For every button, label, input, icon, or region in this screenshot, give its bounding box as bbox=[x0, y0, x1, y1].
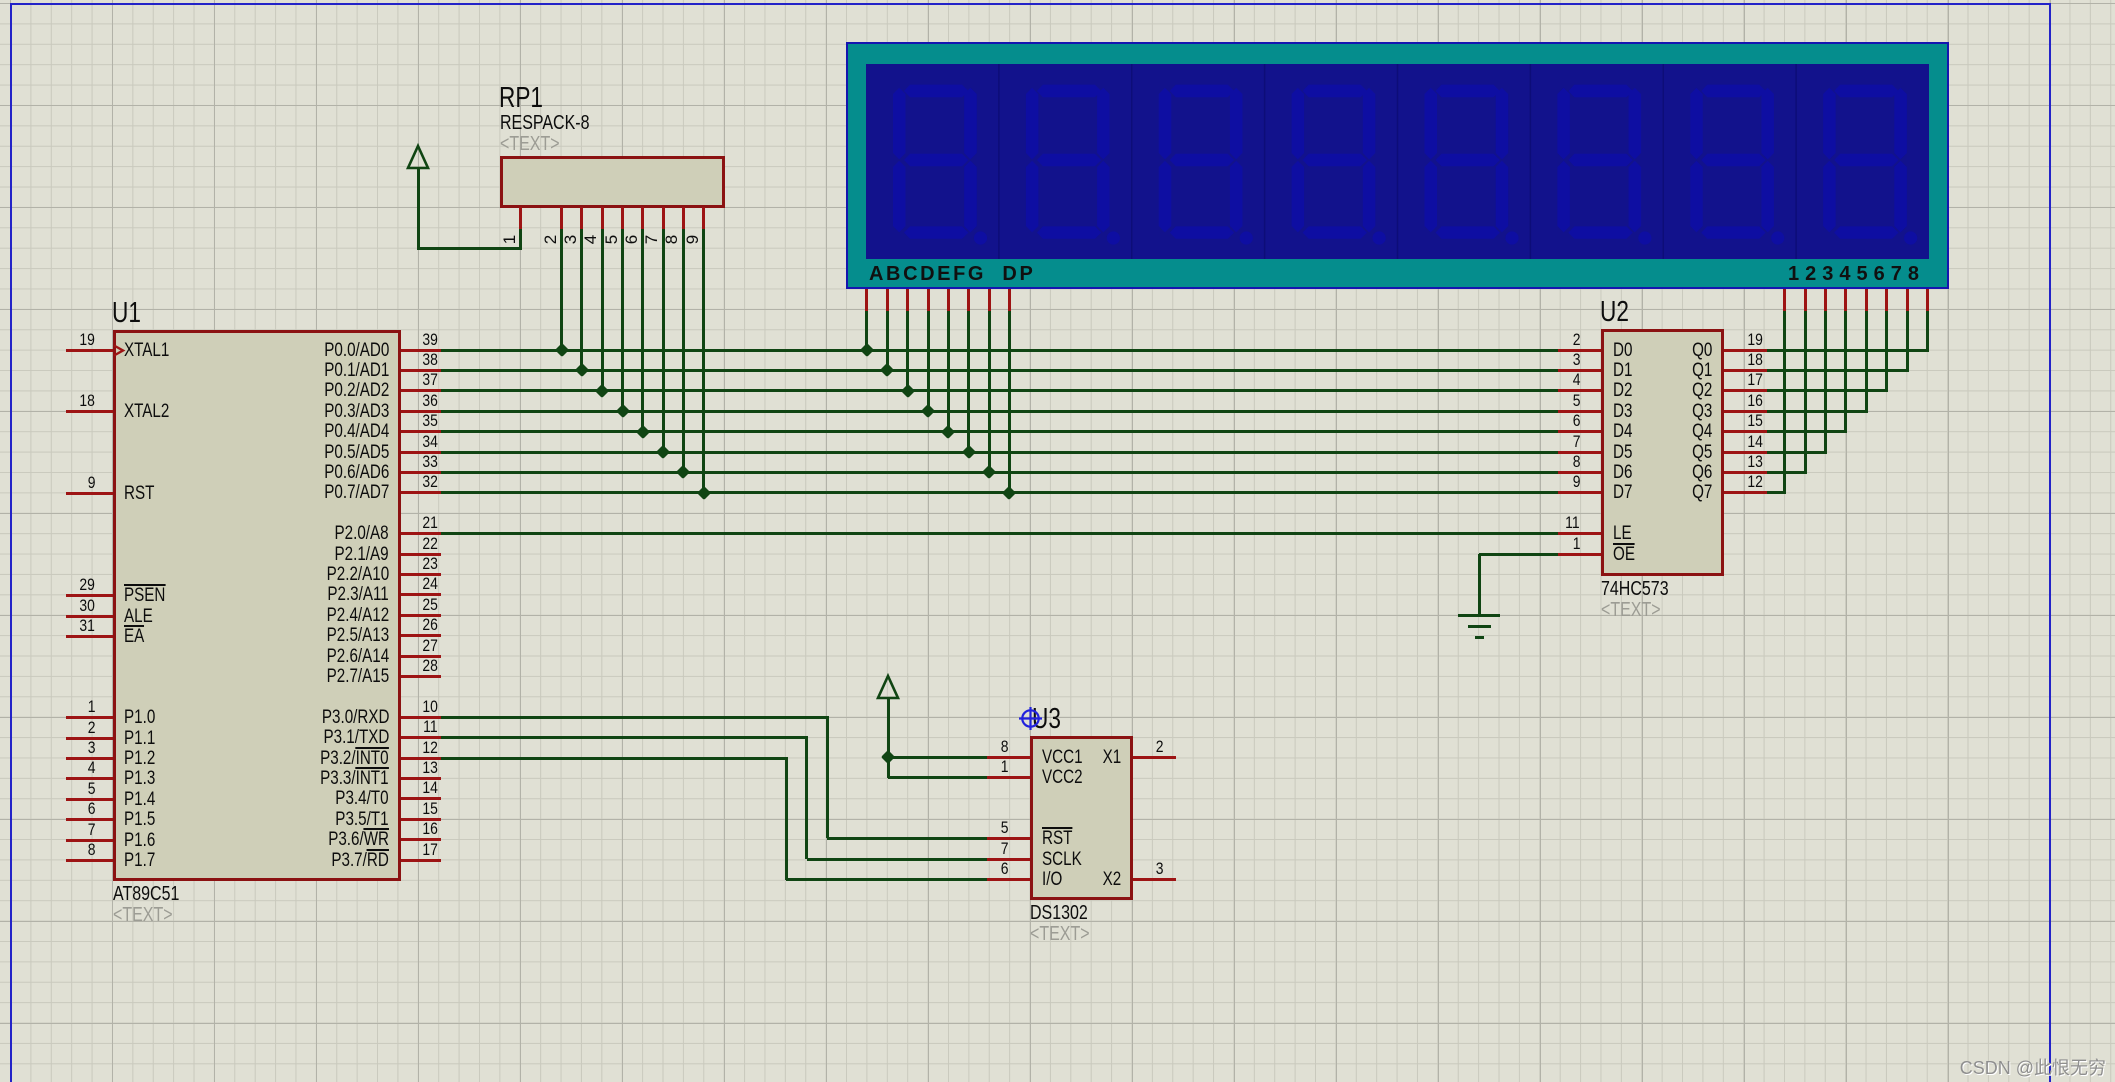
U2 pin number 4 bbox=[1534, 371, 1580, 388]
wire display digit 6 vertical bbox=[1885, 311, 1888, 393]
U2 pin number 6 bbox=[1534, 412, 1580, 429]
junction AD1 / display segment 2 bbox=[880, 363, 894, 377]
U1 pin number 11 bbox=[392, 718, 438, 735]
ground symbol bbox=[1458, 614, 1500, 617]
junction AD2 / RP1 pin 4 bbox=[595, 384, 609, 398]
U1 pin number 33 bbox=[392, 453, 438, 470]
U3 pin name VCC2 bbox=[1042, 768, 1093, 787]
U1 pin number 17 bbox=[392, 841, 438, 858]
U1 pin number 3 bbox=[49, 739, 95, 756]
U2 pin number 9 bbox=[1534, 473, 1580, 490]
U2 pin name Q3 bbox=[1652, 402, 1712, 421]
U2 pin number 16 bbox=[1717, 392, 1763, 409]
junction AD0 / RP1 pin 2 bbox=[555, 343, 569, 357]
label TEXT U2 bbox=[1601, 600, 1675, 620]
RP1 pin 3 stub bbox=[580, 207, 583, 229]
U1 pin number 8 bbox=[49, 841, 95, 858]
U2 pin name D7 bbox=[1613, 483, 1637, 502]
wire power stem bbox=[417, 169, 420, 250]
U2 pin 13 (Q6) stub bbox=[1724, 471, 1767, 474]
U1 pin 33 (P0.6/AD6) stub bbox=[401, 471, 441, 474]
display digit labels 12345678 bbox=[1788, 263, 1925, 286]
U1 pin 9 (RST) stub bbox=[66, 492, 113, 495]
U3 pin 1 (VCC2) stub bbox=[987, 776, 1030, 779]
U1 pin 27 (P2.6/A14) stub bbox=[401, 655, 441, 658]
U2 pin 18 (Q1) stub bbox=[1724, 369, 1767, 372]
U1 pin 37 (P0.2/AD2) stub bbox=[401, 389, 441, 392]
U1 pin number 18 bbox=[49, 392, 95, 409]
junction AD5 / display segment 6 bbox=[962, 445, 976, 459]
U1 pin name P1.4 bbox=[124, 790, 163, 809]
label U2 bbox=[1600, 298, 1637, 327]
U3 pin number 5 bbox=[962, 819, 1008, 836]
wire RP1 pin5 to AD3 bbox=[621, 229, 624, 410]
U3 pin 2 (X1) stub bbox=[1133, 756, 1176, 759]
wire display digit 2 vertical bbox=[1804, 311, 1807, 474]
U1 pin number 19 bbox=[49, 331, 95, 348]
U1 pin 18 (XTAL2) stub bbox=[66, 410, 113, 413]
RP1 pin 2 stub bbox=[560, 207, 563, 229]
label TEXT U1 bbox=[113, 905, 187, 925]
label U1 bbox=[112, 299, 149, 328]
power symbol +V (near U3) bbox=[874, 673, 902, 701]
U1 pin number 36 bbox=[392, 392, 438, 409]
wire net AD7 (U1 P0.7 to U2 D7) bbox=[441, 491, 1558, 494]
display pin 3 stub bbox=[1824, 289, 1827, 311]
U1 pin number 35 bbox=[392, 412, 438, 429]
RP1 pin 8 stub bbox=[682, 207, 685, 229]
7-segment display module (8 digits) bbox=[846, 42, 1949, 289]
display pin 8 stub bbox=[1926, 289, 1929, 311]
wire P3.0 drop bbox=[826, 717, 829, 838]
U1 pin name P2.7/A15 bbox=[219, 667, 389, 686]
RP1 pin number 7 bbox=[643, 235, 660, 244]
U1 pin 7 (P1.6) stub bbox=[66, 839, 113, 842]
U2 pin name Q6 bbox=[1652, 463, 1712, 482]
U2 pin number 2 bbox=[1534, 331, 1580, 348]
wire display digit 8 vertical bbox=[1926, 311, 1929, 352]
RP1 pin number 9 bbox=[684, 235, 701, 244]
U1 pin 38 (P0.1/AD1) stub bbox=[401, 369, 441, 372]
U1 XTAL1 clock arrow bbox=[113, 344, 126, 357]
U1 pin number 2 bbox=[49, 719, 95, 736]
wire RP1 pin7 to AD5 bbox=[662, 229, 665, 451]
U2 pin number 12 bbox=[1717, 473, 1763, 490]
display pin G stub bbox=[988, 289, 991, 311]
wire display digit 3 vertical bbox=[1824, 311, 1827, 454]
display pin B stub bbox=[886, 289, 889, 311]
U3 pin name RST bbox=[1042, 829, 1080, 848]
U1 pin number 30 bbox=[49, 597, 95, 614]
U1 pin name P3.1/TXD bbox=[219, 728, 389, 747]
wire display digit 7 to U2 Q1 bbox=[1767, 369, 1909, 372]
U2 pin name D4 bbox=[1613, 422, 1637, 441]
junction AD3 / display segment 4 bbox=[921, 404, 935, 418]
wire P3.2 drop bbox=[785, 758, 788, 880]
U1 pin 4 (P1.3) stub bbox=[66, 777, 113, 780]
junction AD0 / display segment 1 bbox=[860, 343, 874, 357]
U1 pin number 22 bbox=[392, 535, 438, 552]
wire to U3 VCC2 bbox=[888, 776, 987, 779]
junction AD7 / RP1 pin 9 bbox=[697, 486, 711, 500]
U2 pin name Q2 bbox=[1652, 381, 1712, 400]
wire to U3 I/O bbox=[786, 878, 987, 881]
U2 pin 2 (D0) stub bbox=[1558, 349, 1601, 352]
U2 pin number 11 bbox=[1534, 514, 1580, 531]
U1 pin number 25 bbox=[392, 596, 438, 613]
wire RP1 pin9 to AD7 bbox=[702, 229, 705, 492]
U2 pin name LE bbox=[1613, 524, 1636, 543]
U1 pin 34 (P0.5/AD5) stub bbox=[401, 451, 441, 454]
wire power stem to VCC1 bbox=[887, 699, 890, 757]
U3 pin number 3 bbox=[1117, 860, 1163, 877]
value AT89C51 bbox=[113, 884, 196, 904]
U1 pin name P3.3/INT1 bbox=[219, 769, 389, 788]
RP1 pin 5 stub bbox=[621, 207, 624, 229]
U1 pin name P1.6 bbox=[124, 831, 163, 850]
U1 pin 13 (P3.3/INT1) stub bbox=[401, 777, 441, 780]
RP1 pin 4 stub bbox=[601, 207, 604, 229]
U3 pin name I/O bbox=[1042, 870, 1067, 889]
display pin A stub bbox=[865, 289, 868, 311]
U1 pin number 15 bbox=[392, 800, 438, 817]
U1 pin number 16 bbox=[392, 820, 438, 837]
U1 pin number 1 bbox=[49, 698, 95, 715]
wire to U3 VCC1 bbox=[888, 756, 987, 759]
junction AD2 / display segment 3 bbox=[901, 384, 915, 398]
U1 pin 36 (P0.3/AD3) stub bbox=[401, 410, 441, 413]
U1 pin 31 (EA) stub bbox=[66, 635, 113, 638]
junction AD7 / display segment 8 bbox=[1002, 486, 1016, 500]
U1 pin number 10 bbox=[392, 698, 438, 715]
U1 pin name P0.5/AD5 bbox=[219, 443, 389, 462]
U1 pin 26 (P2.5/A13) stub bbox=[401, 634, 441, 637]
wire display digit 5 vertical bbox=[1865, 311, 1868, 413]
U1 pin 5 (P1.4) stub bbox=[66, 798, 113, 801]
U2 pin name D1 bbox=[1613, 361, 1637, 380]
U2 pin 12 (Q7) stub bbox=[1724, 491, 1767, 494]
U2 pin 16 (Q3) stub bbox=[1724, 410, 1767, 413]
U3 pin 5 (RST) stub bbox=[987, 837, 1030, 840]
U1 pin name P0.0/AD0 bbox=[219, 341, 389, 360]
U1 pin name P1.2 bbox=[124, 749, 163, 768]
U1 pin name P3.0/RXD bbox=[219, 708, 389, 727]
U1 pin name P1.3 bbox=[124, 769, 163, 788]
RP1 pin 6 stub bbox=[641, 207, 644, 229]
junction AD1 / RP1 pin 3 bbox=[575, 363, 589, 377]
wire display digit 3 to U2 Q5 bbox=[1767, 451, 1827, 454]
U1 pin number 37 bbox=[392, 371, 438, 388]
U1 pin 3 (P1.2) stub bbox=[66, 757, 113, 760]
wire display A to AD0 bbox=[865, 311, 868, 349]
display pin 6 stub bbox=[1885, 289, 1888, 311]
display pin 4 stub bbox=[1844, 289, 1847, 311]
U2 pin 7 (D5) stub bbox=[1558, 451, 1601, 454]
chip U3 DS1302 body bbox=[1030, 736, 1133, 900]
U3 pin name X1 bbox=[1071, 748, 1121, 767]
junction AD5 / RP1 pin 7 bbox=[656, 445, 670, 459]
wire display digit 6 to U2 Q2 bbox=[1767, 389, 1888, 392]
wire RP1 pin2 to AD0 bbox=[560, 229, 563, 349]
U1 pin name P3.2/INT0 bbox=[219, 749, 389, 768]
wire U1 P3.0 horizontal bbox=[441, 716, 829, 719]
U1 pin 25 (P2.4/A12) stub bbox=[401, 614, 441, 617]
U1 pin name P2.6/A14 bbox=[219, 647, 389, 666]
U1 pin name P1.1 bbox=[124, 729, 163, 748]
RP1 pin number 2 bbox=[542, 235, 559, 244]
U2 pin 15 (Q4) stub bbox=[1724, 430, 1767, 433]
U2 pin name D6 bbox=[1613, 463, 1637, 482]
display pin 5 stub bbox=[1865, 289, 1868, 311]
U1 pin 1 (P1.0) stub bbox=[66, 716, 113, 719]
label RP1 bbox=[499, 84, 555, 113]
U1 pin name PSEN bbox=[124, 586, 176, 605]
U1 pin number 32 bbox=[392, 473, 438, 490]
U1 pin name P0.6/AD6 bbox=[219, 463, 389, 482]
display pin 2 stub bbox=[1804, 289, 1807, 311]
wire display E to AD4 bbox=[947, 311, 950, 431]
U1 pin number 13 bbox=[392, 759, 438, 776]
U2 pin 3 (D1) stub bbox=[1558, 369, 1601, 372]
wire RP1 pin3 to AD1 bbox=[580, 229, 583, 369]
wire net A8 (U1 P2.0 to U2 LE) bbox=[441, 532, 1558, 535]
wire to U3 SCLK bbox=[807, 858, 987, 861]
U2 pin name D3 bbox=[1613, 402, 1637, 421]
U1 pin number 6 bbox=[49, 800, 95, 817]
U3 pin 6 (I/O) stub bbox=[987, 878, 1030, 881]
U1 pin name XTAL2 bbox=[124, 402, 181, 421]
wire display digit 4 vertical bbox=[1844, 311, 1847, 434]
wire display digit 5 to U2 Q3 bbox=[1767, 410, 1868, 413]
U1 pin name P0.3/AD3 bbox=[219, 402, 389, 421]
RP1 pin number 5 bbox=[603, 235, 620, 244]
U1 pin number 9 bbox=[49, 474, 95, 491]
wire net AD1 (U1 P0.1 to U2 D1) bbox=[441, 369, 1558, 372]
U1 pin name P0.2/AD2 bbox=[219, 381, 389, 400]
RP1 pin 1 stub bbox=[519, 207, 522, 229]
chip U1 AT89C51 body bbox=[113, 330, 401, 881]
U2 pin 5 (D3) stub bbox=[1558, 410, 1601, 413]
U1 pin number 14 bbox=[392, 779, 438, 796]
wire net AD6 (U1 P0.6 to U2 D6) bbox=[441, 471, 1558, 474]
wire VCC rail down bbox=[887, 757, 890, 777]
U1 pin 11 (P3.1/TXD) stub bbox=[401, 736, 441, 739]
U1 pin name P3.5/T1 bbox=[219, 810, 389, 829]
RP1 pin number 4 bbox=[582, 235, 599, 244]
U1 pin number 31 bbox=[49, 617, 95, 634]
wire display G to AD6 bbox=[988, 311, 991, 471]
junction AD3 / RP1 pin 5 bbox=[615, 404, 629, 418]
value DS1302 bbox=[1030, 903, 1102, 923]
U1 pin 32 (P0.7/AD7) stub bbox=[401, 491, 441, 494]
resistor pack RP1 body bbox=[500, 156, 725, 208]
wire to U3 RST bbox=[827, 837, 987, 840]
U1 pin name P3.6/WR bbox=[219, 830, 389, 849]
U1 pin name P3.7/RD bbox=[219, 851, 389, 870]
U1 pin 23 (P2.2/A10) stub bbox=[401, 573, 441, 576]
wire net AD4 (U1 P0.4 to U2 D4) bbox=[441, 430, 1558, 433]
U1 pin name P3.4/T0 bbox=[219, 789, 389, 808]
junction AD4 / display segment 5 bbox=[941, 425, 955, 439]
U2 pin name Q0 bbox=[1652, 341, 1712, 360]
U1 pin 21 (P2.0/A8) stub bbox=[401, 532, 441, 535]
wire RP1 pin4 to AD2 bbox=[601, 229, 604, 390]
U3 pin number 7 bbox=[962, 840, 1008, 857]
U3 pin number 8 bbox=[962, 738, 1008, 755]
U3 pin name X2 bbox=[1071, 870, 1121, 889]
U2 pin number 13 bbox=[1717, 453, 1763, 470]
U1 pin name P0.1/AD1 bbox=[219, 361, 389, 380]
U1 pin number 24 bbox=[392, 575, 438, 592]
wire ground drop bbox=[1478, 554, 1481, 615]
U1 pin 6 (P1.5) stub bbox=[66, 818, 113, 821]
U1 pin name P1.5 bbox=[124, 810, 163, 829]
U1 pin number 26 bbox=[392, 616, 438, 633]
U2 pin 6 (D4) stub bbox=[1558, 430, 1601, 433]
RP1 pin number 8 bbox=[664, 235, 681, 244]
display pin 7 stub bbox=[1906, 289, 1909, 311]
U2 pin number 14 bbox=[1717, 433, 1763, 450]
display pin E stub bbox=[947, 289, 950, 311]
U1 pin name P2.3/A11 bbox=[219, 585, 389, 604]
RP1 pin 7 stub bbox=[662, 207, 665, 229]
wire U2 OE to ground bbox=[1479, 553, 1558, 556]
wire display digit 4 to U2 Q4 bbox=[1767, 430, 1847, 433]
U1 pin number 27 bbox=[392, 637, 438, 654]
wire RP1 pin1 down bbox=[519, 229, 522, 249]
U2 pin 4 (D2) stub bbox=[1558, 389, 1601, 392]
value RESPACK-8 bbox=[500, 113, 612, 133]
U1 pin 15 (P3.5/T1) stub bbox=[401, 818, 441, 821]
U2 pin name Q4 bbox=[1652, 422, 1712, 441]
U3 origin marker bbox=[1018, 706, 1043, 731]
U1 pin name P2.0/A8 bbox=[219, 524, 389, 543]
U1 pin 35 (P0.4/AD4) stub bbox=[401, 430, 441, 433]
U2 pin name Q5 bbox=[1652, 443, 1712, 462]
U3 pin number 1 bbox=[962, 758, 1008, 775]
wire net AD0 (U1 P0.0 to U2 D0) bbox=[441, 349, 1558, 352]
U1 pin name P2.2/A10 bbox=[219, 565, 389, 584]
U1 pin 8 (P1.7) stub bbox=[66, 859, 113, 862]
wire net AD3 (U1 P0.3 to U2 D3) bbox=[441, 410, 1558, 413]
junction AD6 / display segment 7 bbox=[982, 465, 996, 479]
wire display DP to AD7 bbox=[1008, 311, 1011, 492]
U1 pin 30 (ALE) stub bbox=[66, 615, 113, 618]
watermark bbox=[1960, 1054, 2106, 1080]
wire display digit 1 to U2 Q7 bbox=[1767, 491, 1786, 494]
label U3 bbox=[1032, 705, 1069, 734]
U1 pin name EA bbox=[124, 627, 149, 646]
U1 pin name P1.0 bbox=[124, 708, 163, 727]
label TEXT U3 bbox=[1030, 924, 1104, 944]
junction AD6 / RP1 pin 8 bbox=[676, 465, 690, 479]
U1 pin number 38 bbox=[392, 351, 438, 368]
U1 pin number 39 bbox=[392, 331, 438, 348]
wire RP1 pin1 to power rail bbox=[418, 247, 522, 250]
U2 pin number 3 bbox=[1534, 351, 1580, 368]
U1 pin number 7 bbox=[49, 821, 95, 838]
display pin F stub bbox=[967, 289, 970, 311]
junction VCC rail bbox=[881, 750, 895, 764]
wire RP1 pin6 to AD4 bbox=[641, 229, 644, 431]
U2 pin number 18 bbox=[1717, 351, 1763, 368]
U1 pin 12 (P3.2/INT0) stub bbox=[401, 757, 441, 760]
display segment labels ABCDEFG DP bbox=[869, 263, 1035, 286]
wire display B to AD1 bbox=[886, 311, 889, 369]
wire display D to AD3 bbox=[927, 311, 930, 410]
U1 pin name P1.7 bbox=[124, 851, 163, 870]
U2 pin number 15 bbox=[1717, 412, 1763, 429]
U2 pin 11 (LE) stub bbox=[1558, 532, 1601, 535]
value 74HC573 bbox=[1601, 579, 1686, 599]
U2 pin name D5 bbox=[1613, 443, 1637, 462]
U1 pin 29 (PSEN) stub bbox=[66, 594, 113, 597]
wire display C to AD2 bbox=[906, 311, 909, 390]
U1 pin name P2.1/A9 bbox=[219, 545, 389, 564]
U1 pin 24 (P2.3/A11) stub bbox=[401, 593, 441, 596]
U3 pin number 6 bbox=[962, 860, 1008, 877]
chip U2 74HC573 body bbox=[1601, 329, 1724, 576]
display pin 1 stub bbox=[1783, 289, 1786, 311]
wire U1 P3.2 horizontal bbox=[441, 757, 788, 760]
U1 pin number 4 bbox=[49, 759, 95, 776]
wire net AD5 (U1 P0.5 to U2 D5) bbox=[441, 451, 1558, 454]
wire display digit 2 to U2 Q6 bbox=[1767, 471, 1807, 474]
power symbol +V (near RP1) bbox=[404, 143, 432, 171]
U1 pin name P2.5/A13 bbox=[219, 626, 389, 645]
wire net AD2 (U1 P0.2 to U2 D2) bbox=[441, 389, 1558, 392]
U3 pin 3 (X2) stub bbox=[1133, 878, 1176, 881]
U1 pin 14 (P3.4/T0) stub bbox=[401, 797, 441, 800]
U2 pin name D0 bbox=[1613, 341, 1637, 360]
U1 pin 19 (XTAL1) stub bbox=[66, 349, 113, 352]
U2 pin number 19 bbox=[1717, 331, 1763, 348]
U1 pin number 5 bbox=[49, 780, 95, 797]
U2 pin 14 (Q5) stub bbox=[1724, 451, 1767, 454]
U1 pin name RST bbox=[124, 484, 162, 503]
wire RP1 pin8 to AD6 bbox=[682, 229, 685, 471]
U1 pin name P0.7/AD7 bbox=[219, 483, 389, 502]
wire P3.1 drop bbox=[805, 738, 808, 859]
U1 pin 17 (P3.7/RD) stub bbox=[401, 859, 441, 862]
U2 pin 17 (Q2) stub bbox=[1724, 389, 1767, 392]
wire display digit 7 vertical bbox=[1906, 311, 1909, 372]
wire display F to AD5 bbox=[967, 311, 970, 451]
U2 pin number 5 bbox=[1534, 392, 1580, 409]
U2 pin name Q1 bbox=[1652, 361, 1712, 380]
U1 pin 16 (P3.6/WR) stub bbox=[401, 838, 441, 841]
U1 pin 39 (P0.0/AD0) stub bbox=[401, 349, 441, 352]
U1 pin 28 (P2.7/A15) stub bbox=[401, 675, 441, 678]
display pin DP stub bbox=[1008, 289, 1011, 311]
U1 pin name P2.4/A12 bbox=[219, 606, 389, 625]
U1 pin number 23 bbox=[392, 555, 438, 572]
RP1 pin number 1 bbox=[501, 235, 518, 244]
U2 pin name Q7 bbox=[1652, 483, 1712, 502]
U1 pin name XTAL1 bbox=[124, 341, 181, 360]
label TEXT RP1 bbox=[500, 134, 574, 154]
U2 pin number 8 bbox=[1534, 453, 1580, 470]
U2 pin number 1 bbox=[1534, 535, 1580, 552]
U2 pin name D2 bbox=[1613, 381, 1637, 400]
U2 pin number 17 bbox=[1717, 371, 1763, 388]
wire display digit 8 to U2 Q0 bbox=[1767, 349, 1929, 352]
RP1 pin number 3 bbox=[562, 235, 579, 244]
U3 pin name SCLK bbox=[1042, 850, 1092, 869]
U1 pin number 34 bbox=[392, 433, 438, 450]
wire display digit 1 vertical bbox=[1783, 311, 1786, 495]
U1 pin 10 (P3.0/RXD) stub bbox=[401, 716, 441, 719]
